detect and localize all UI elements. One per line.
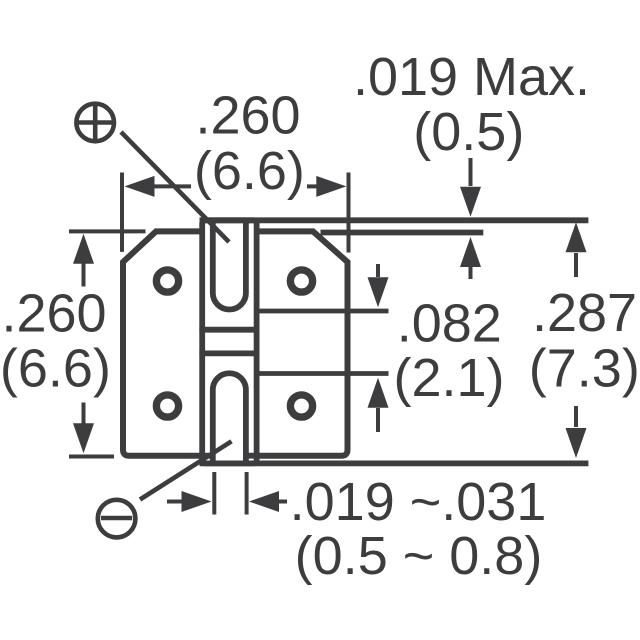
svg-text:(2.1): (2.1) [393,348,504,408]
svg-text:(7.3): (7.3) [529,339,640,399]
svg-text:.019 Max.: .019 Max. [353,47,590,107]
svg-text:.287: .287 [532,283,637,343]
svg-text:.082: .082 [397,294,502,354]
svg-text:.260: .260 [1,284,106,344]
svg-text:(6.6): (6.6) [194,141,305,201]
svg-text:(6.6): (6.6) [0,339,111,399]
svg-text:(0.5): (0.5) [413,102,524,162]
svg-text:(0.5 ~ 0.8): (0.5 ~ 0.8) [295,526,543,586]
svg-text:.019 ~.031: .019 ~.031 [290,472,547,532]
svg-text:.260: .260 [195,86,300,146]
